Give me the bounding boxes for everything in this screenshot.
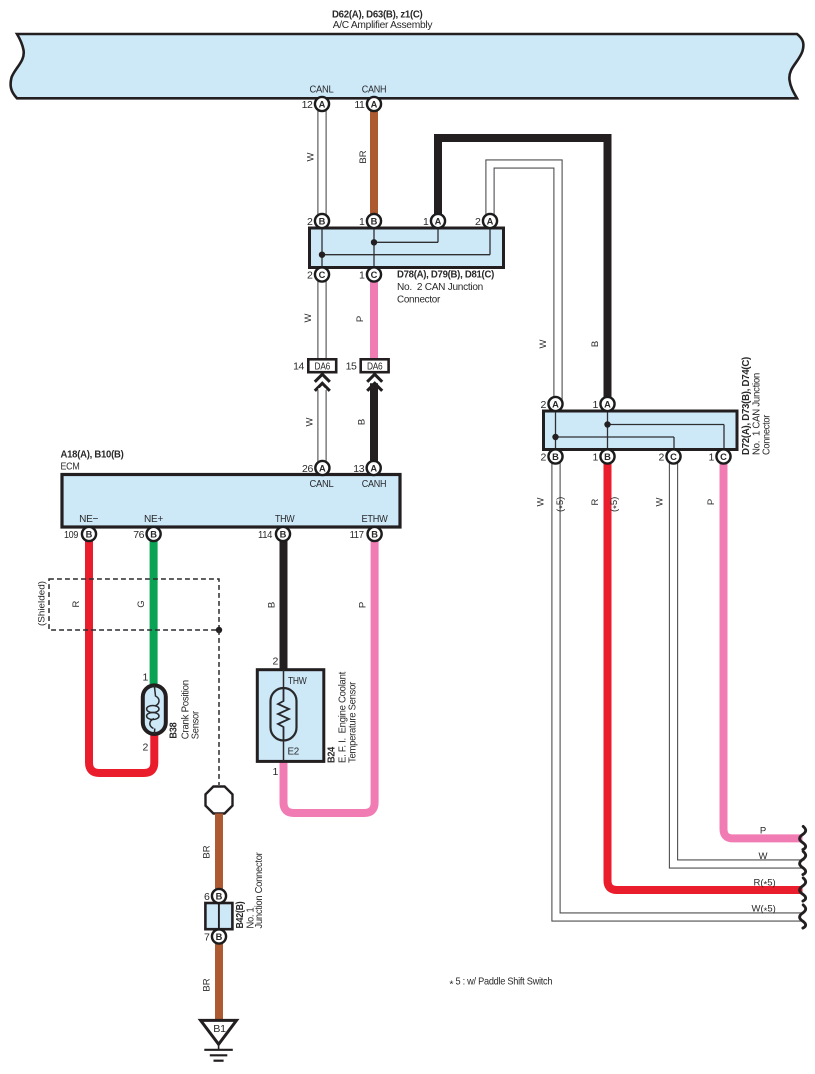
svg-text:A18(A), B10(B): A18(A), B10(B) xyxy=(61,449,124,461)
ground hatch xyxy=(218,1044,220,1050)
wire B (D78 pin 1A to D72 pin 1A) xyxy=(438,138,608,402)
svg-text:1: 1 xyxy=(709,452,715,464)
svg-text:6: 6 xyxy=(204,891,210,903)
pin 2B D78 xyxy=(307,214,329,228)
svg-text:NE−: NE− xyxy=(79,513,98,525)
svg-text:A: A xyxy=(371,99,378,109)
pin 2C D78 xyxy=(307,267,329,281)
svg-text:P: P xyxy=(355,316,366,322)
svg-text:109: 109 xyxy=(64,529,78,541)
svg-text:A: A xyxy=(319,99,326,109)
svg-text:ETHW: ETHW xyxy=(362,513,388,525)
svg-text:1: 1 xyxy=(273,766,279,778)
svg-text:117: 117 xyxy=(350,529,364,541)
svg-text:W: W xyxy=(655,497,666,506)
shield ground octagon xyxy=(206,787,233,814)
pin 114B ECM xyxy=(258,527,290,541)
svg-text:G: G xyxy=(136,600,147,607)
thermistor stadium xyxy=(271,688,297,741)
svg-text:2: 2 xyxy=(307,216,313,228)
svg-text:76: 76 xyxy=(133,529,144,541)
svg-text:A/C Amplifier Assembly: A/C Amplifier Assembly xyxy=(333,19,434,31)
svg-text:B: B xyxy=(150,529,157,539)
svg-text:P: P xyxy=(358,602,369,608)
svg-text:Connector: Connector xyxy=(397,293,441,305)
svg-text:CANL: CANL xyxy=(310,478,334,490)
connector DA6 no.15 box xyxy=(361,359,389,372)
svg-text:A: A xyxy=(319,463,326,473)
wire P (D72 1C down to right edge) xyxy=(724,461,803,838)
wire G (ECM 76 to crank sensor pin 1) xyxy=(150,539,158,684)
svg-text:THW: THW xyxy=(288,675,307,687)
svg-text:E2: E2 xyxy=(288,746,300,758)
wire P (D78 1C to DA6-15) xyxy=(370,276,378,360)
svg-text:15: 15 xyxy=(346,361,357,373)
pin 2C D72 xyxy=(659,449,681,463)
wire W (D78 pin 2A to D72 pin 2A) xyxy=(490,164,558,402)
pin 1B D72 xyxy=(593,449,615,463)
junction connector B42 box xyxy=(205,903,232,929)
pin 1C D78 xyxy=(359,267,381,281)
svg-text:W: W xyxy=(536,497,547,506)
pin 2A D72 xyxy=(541,397,563,411)
pin 2A D78 xyxy=(475,214,497,228)
continuation squiggle W5 xyxy=(800,905,806,928)
wire B (ECM 114 to THW sensor pin 2) xyxy=(280,539,288,671)
internal lead lines xyxy=(283,670,285,762)
continuation squiggle W xyxy=(800,851,806,874)
wire W (D72 2C down to right edge) xyxy=(674,461,805,864)
shielded dashed box xyxy=(49,579,219,630)
svg-text:7: 7 xyxy=(204,932,210,944)
chevrons under DA6-15 xyxy=(367,374,382,391)
pin 1A D78 xyxy=(423,214,445,228)
wire BR CANH (band to D78 pin 1B) xyxy=(370,106,378,219)
svg-text:2: 2 xyxy=(143,742,149,754)
svg-text:NE+: NE+ xyxy=(144,513,163,525)
svg-text:2: 2 xyxy=(541,452,547,464)
svg-text:CANH: CANH xyxy=(362,84,387,96)
svg-text:R: R xyxy=(590,498,601,505)
svg-text:14: 14 xyxy=(293,361,304,373)
svg-text:1: 1 xyxy=(593,399,599,411)
svg-text:A: A xyxy=(487,216,494,226)
wire R(*5) (D72 1B down to right edge) xyxy=(608,461,803,890)
svg-text:2: 2 xyxy=(541,399,547,411)
svg-text:B: B xyxy=(590,341,601,347)
junction dot 2B bus xyxy=(319,252,325,258)
ECM box xyxy=(62,475,400,528)
svg-text:2: 2 xyxy=(273,656,279,668)
D72 internal bus lines xyxy=(556,411,725,450)
wire W(*5) (D72 2B down to right edge) xyxy=(556,461,805,917)
svg-text:W: W xyxy=(303,313,314,322)
svg-text:B: B xyxy=(357,419,368,425)
wire W (DA6-14 to ECM pin 26) xyxy=(317,390,326,466)
svg-text:B: B xyxy=(552,452,559,462)
svg-text:2: 2 xyxy=(307,270,313,282)
pin 1B D78 xyxy=(359,214,381,228)
pin 1C D72 xyxy=(709,449,731,463)
svg-text:CANH: CANH xyxy=(362,478,387,490)
svg-text:BR: BR xyxy=(358,150,369,163)
svg-text:1: 1 xyxy=(423,216,429,228)
chevrons under DA6-14 xyxy=(315,374,330,391)
svg-text:THW: THW xyxy=(275,513,295,525)
svg-text:C: C xyxy=(670,452,677,462)
svg-text:D78(A), D79(B), D81(C): D78(A), D79(B), D81(C) xyxy=(397,269,494,281)
pin 11A band xyxy=(354,97,381,111)
svg-text:C: C xyxy=(319,270,326,280)
pin 13A ECM xyxy=(353,461,380,475)
svg-text:W: W xyxy=(759,851,768,862)
wire W (D78 2C to DA6-14) xyxy=(317,276,326,360)
svg-text:1: 1 xyxy=(143,672,149,684)
resistor zigzag xyxy=(278,688,289,741)
svg-text:B: B xyxy=(280,529,287,539)
junction dot D72 2A bus xyxy=(552,434,558,440)
svg-text:B1: B1 xyxy=(213,1023,226,1035)
wire R (ECM 109 to crank sensor pin 2) xyxy=(89,539,154,773)
continuation squiggle P xyxy=(800,826,806,849)
wire BR (B42 pin 7 to ground B1) xyxy=(215,941,223,1020)
svg-text:DA6: DA6 xyxy=(367,360,383,372)
wire BR (shield octagon to B42 pin 6) xyxy=(215,814,223,893)
pin 26A ECM xyxy=(302,461,329,475)
A/C amplifier assembly band D62/D63/z1 xyxy=(11,34,804,98)
ground triangle B1 xyxy=(201,1020,237,1044)
svg-text:P: P xyxy=(706,499,717,505)
junction dot D72 1A bus xyxy=(604,421,610,427)
pin 7B B42 xyxy=(204,929,226,943)
junction connector D72 box xyxy=(544,411,738,450)
svg-text:BR: BR xyxy=(202,978,213,991)
pin circles xyxy=(64,97,731,944)
svg-text:A: A xyxy=(435,216,442,226)
THW sensor box E2/B24 xyxy=(257,670,324,762)
coil symbol xyxy=(150,685,159,734)
svg-text:B: B xyxy=(216,891,223,901)
svg-text:ECM: ECM xyxy=(61,461,80,473)
shield dashed drain line xyxy=(218,630,220,785)
connector DA6 no.14 box xyxy=(308,359,336,372)
svg-text:B38: B38 xyxy=(168,722,180,738)
svg-text:12: 12 xyxy=(302,99,313,111)
svg-text:2: 2 xyxy=(475,216,481,228)
svg-text:No. 2 CAN Junction: No. 2 CAN Junction xyxy=(397,281,483,293)
svg-text:C: C xyxy=(371,270,378,280)
svg-text:B: B xyxy=(371,529,378,539)
svg-text:P: P xyxy=(760,826,766,837)
junction connector D78 box xyxy=(310,228,504,268)
pin 117B ECM xyxy=(350,527,382,541)
pin 1A D72 xyxy=(593,397,615,411)
svg-text:W: W xyxy=(538,339,549,348)
pin 12A band xyxy=(302,97,329,111)
pin 109B ECM xyxy=(64,527,96,541)
crank position sensor B38 xyxy=(143,685,166,734)
svg-text:2: 2 xyxy=(659,452,665,464)
D78 internal bus lines xyxy=(322,228,490,268)
svg-text:1: 1 xyxy=(593,452,599,464)
svg-text:A: A xyxy=(552,399,559,409)
svg-text:1: 1 xyxy=(359,216,365,228)
pin 6B B42 xyxy=(204,889,226,903)
junction dot 1B bus xyxy=(371,239,377,245)
svg-text:Junction Connector: Junction Connector xyxy=(253,852,265,929)
pin 2B D72 xyxy=(541,449,563,463)
svg-text:1: 1 xyxy=(359,270,365,282)
svg-text:R: R xyxy=(71,600,82,607)
svg-text:CANL: CANL xyxy=(310,84,334,96)
wire W CANL (band to D78 pin 2B) xyxy=(317,106,326,219)
svg-text:BR: BR xyxy=(202,845,213,858)
svg-text:Sensor: Sensor xyxy=(190,710,202,739)
svg-text:B: B xyxy=(319,216,326,226)
svg-text:11: 11 xyxy=(354,99,365,111)
svg-text:B: B xyxy=(371,216,378,226)
svg-text:B: B xyxy=(216,932,223,942)
svg-text:B: B xyxy=(86,529,93,539)
svg-text:A: A xyxy=(370,463,377,473)
svg-text:114: 114 xyxy=(258,529,272,541)
svg-text:C: C xyxy=(720,452,727,462)
svg-text:Temperature Sensor: Temperature Sensor xyxy=(347,681,359,763)
svg-text:Connector: Connector xyxy=(761,414,773,455)
svg-text:W: W xyxy=(305,417,316,426)
wire B (DA6-15 to ECM pin 13) xyxy=(370,383,378,466)
wire P (ECM 117 to THW sensor pin 1) xyxy=(284,539,375,813)
svg-text:A: A xyxy=(604,399,611,409)
svg-text:(Shielded): (Shielded) xyxy=(37,581,48,626)
pin 76B ECM xyxy=(133,527,160,541)
continuation squiggle R xyxy=(800,878,806,901)
svg-text:B: B xyxy=(267,602,278,608)
svg-text:DA6: DA6 xyxy=(315,360,331,372)
svg-text:13: 13 xyxy=(353,463,364,475)
svg-text:B: B xyxy=(604,452,611,462)
svg-text:W: W xyxy=(306,152,317,161)
svg-text:26: 26 xyxy=(302,463,313,475)
shield junction dot xyxy=(216,627,222,633)
